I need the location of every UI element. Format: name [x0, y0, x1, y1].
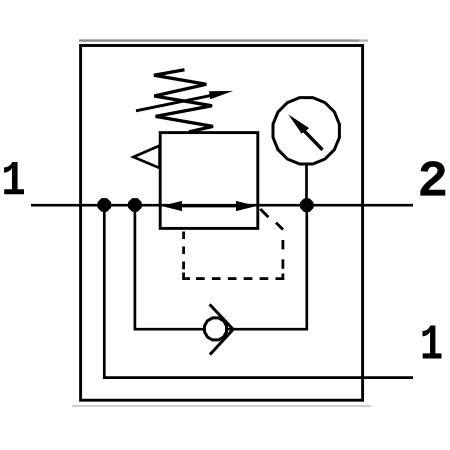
bottom shadow rule [72, 405, 371, 407]
port label 1 (left) [4, 162, 24, 194]
pilot line (dashed) [184, 209, 283, 279]
adjustment arrow through spring [136, 91, 233, 111]
node J2 [128, 198, 142, 212]
spring (regulator setting) [154, 70, 213, 132]
regulator body U1 [160, 133, 258, 229]
enclosure frame [81, 46, 363, 401]
check valve V1 [205, 304, 234, 354]
flow path arrows inside regulator [162, 201, 257, 211]
relief vent triangle [133, 146, 159, 168]
node J1 [98, 198, 112, 212]
pressure gauge G1 [273, 98, 339, 205]
node J3 (gauge tap) [300, 198, 314, 212]
port label 1 (bottom right) [423, 326, 442, 359]
port label 2 (right) [420, 161, 445, 195]
wire: main flow line 1 to 2 [31, 204, 413, 207]
top shadow rule [79, 39, 359, 41]
wire: branch from node J1 down to bottom port 1 [104, 205, 413, 377]
wire: branch from node J2 down to check valve line [135, 205, 307, 329]
